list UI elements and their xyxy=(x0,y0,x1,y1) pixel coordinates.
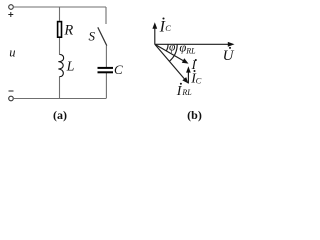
svg-text:L: L xyxy=(66,60,75,75)
svg-text:U: U xyxy=(223,48,235,64)
svg-text:(a): (a) xyxy=(53,108,67,122)
svg-text:C: C xyxy=(114,62,123,77)
svg-text:RL: RL xyxy=(181,88,192,97)
svg-text:RL: RL xyxy=(185,47,196,56)
svg-text:C: C xyxy=(196,75,202,85)
svg-text:φ: φ xyxy=(169,41,176,53)
svg-text:R: R xyxy=(63,22,73,38)
svg-text:S: S xyxy=(89,28,96,43)
svg-text:(b): (b) xyxy=(187,108,202,122)
svg-text:C: C xyxy=(165,23,171,33)
svg-text:I: I xyxy=(191,57,197,72)
svg-text:u: u xyxy=(9,46,15,60)
